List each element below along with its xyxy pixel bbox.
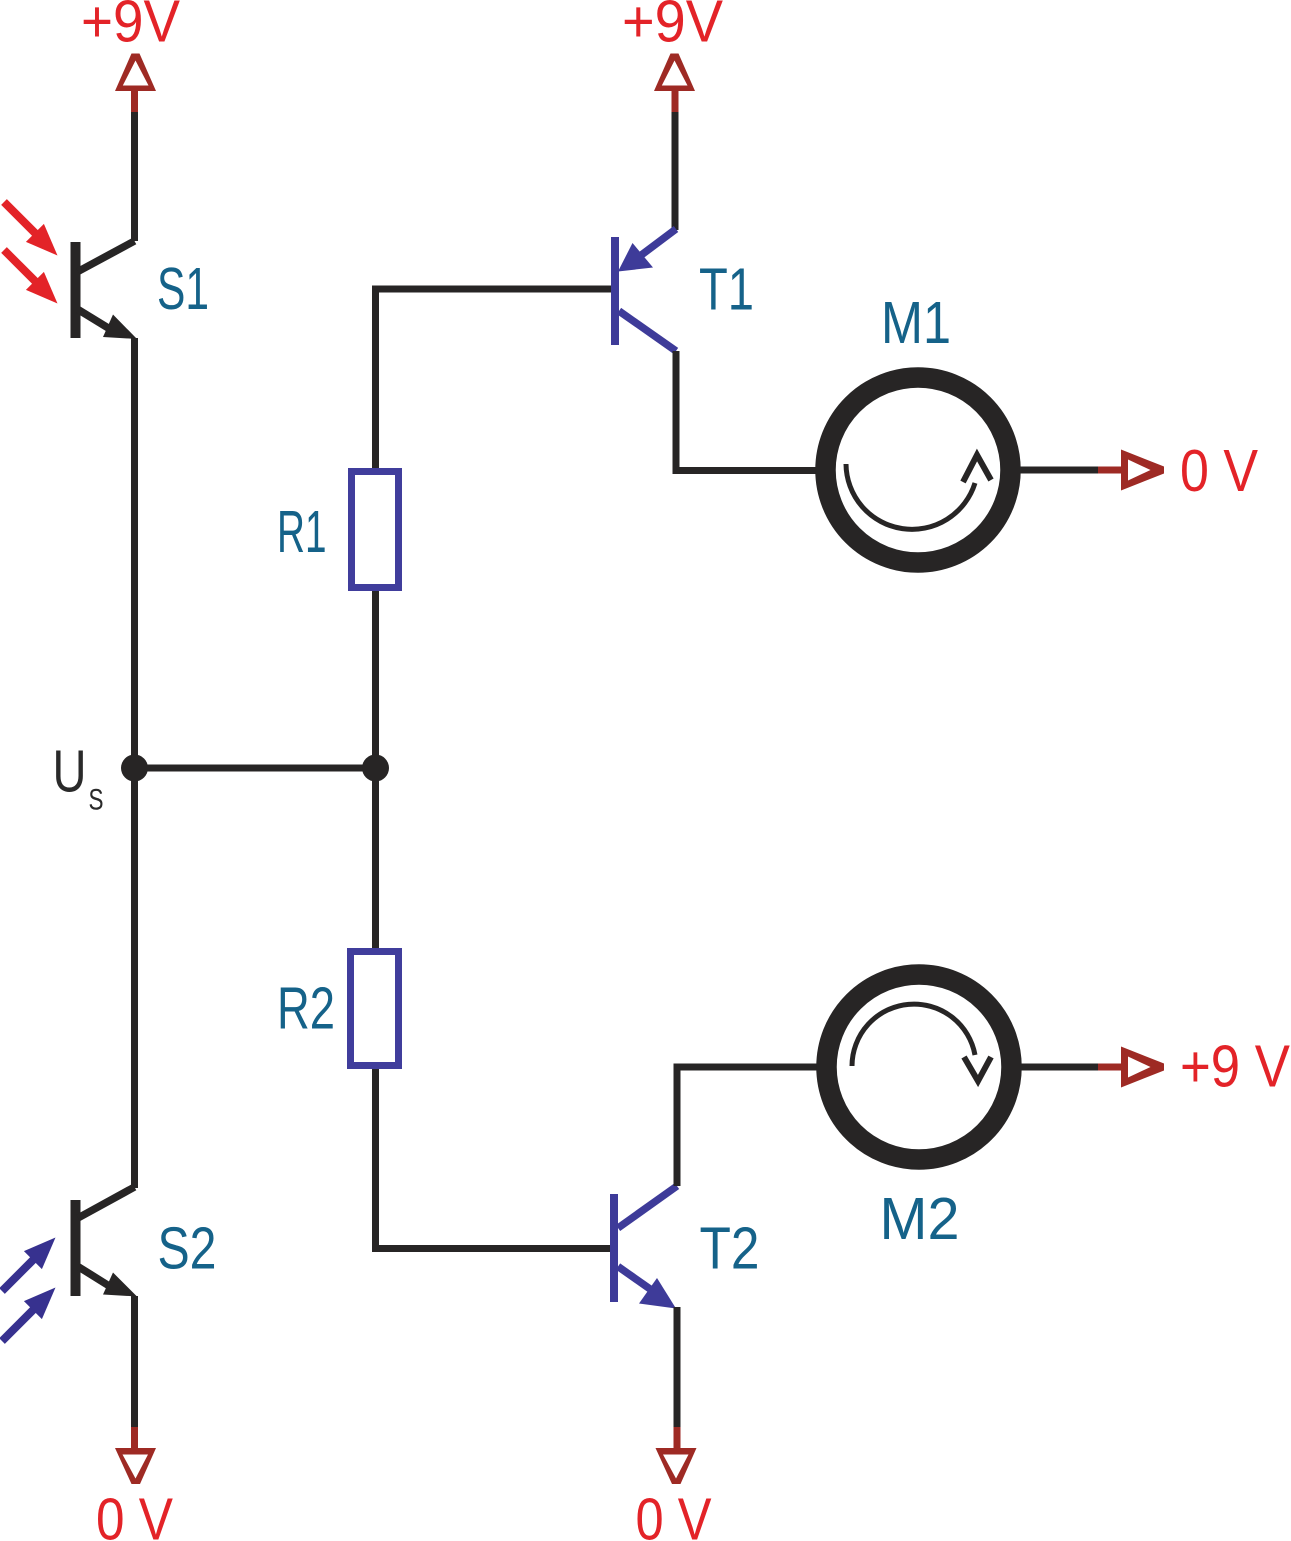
light arrows into S1: [4, 202, 58, 304]
resistor R2: [351, 952, 399, 1066]
svg-text:M2: M2: [880, 1186, 960, 1252]
supply stub (dark red) right M1: [1098, 467, 1122, 474]
wire: R1 top to T1 base: [376, 289, 612, 468]
svg-text:T1: T1: [699, 257, 754, 323]
wire: M1 to 0V: [1020, 467, 1100, 474]
supply stub (dark red) right M2: [1098, 1064, 1122, 1071]
svg-text:R2: R2: [277, 976, 335, 1042]
wire: S1 emitter down to node Us: [131, 338, 138, 768]
svg-text:S: S: [89, 784, 104, 817]
+9V arrow symbol (right M2): [1121, 1047, 1164, 1088]
wire: +9V to T1 emitter: [672, 112, 679, 230]
svg-text:S2: S2: [158, 1216, 217, 1282]
wire: M2 to +9V: [1021, 1064, 1100, 1071]
svg-text:0 V: 0 V: [636, 1487, 713, 1541]
transistor T2 (NPN): [614, 1186, 677, 1309]
supply stub (dark red) bottom left: [131, 1427, 138, 1449]
svg-text:R1: R1: [277, 499, 327, 565]
svg-text:T2: T2: [700, 1216, 760, 1282]
wire: S2 emitter down to 0V: [131, 1296, 138, 1428]
supply stub (dark red) top left: [131, 91, 138, 113]
wire: node link Us: [135, 765, 376, 772]
wire: R1 bottom to node: [372, 591, 379, 768]
wire: R2 bottom to T2 base: [376, 1069, 611, 1249]
svg-text:+9V: +9V: [81, 0, 181, 55]
svg-text:+9V: +9V: [622, 0, 724, 55]
0V ground arrow symbol (bottom T2): [656, 1448, 697, 1484]
motor M1: [826, 378, 1011, 563]
wire: +9V to S1 collector: [131, 112, 138, 241]
svg-text:M1: M1: [881, 290, 951, 356]
wire: node Us down to S2 collector: [131, 768, 138, 1188]
motor M2: [827, 975, 1012, 1160]
supply stub (dark red) T1: [672, 91, 679, 113]
wire: node to R2 top: [372, 768, 379, 948]
wire: T2 emitter to 0V: [674, 1307, 681, 1428]
wire: T2 collector to M2: [677, 1067, 817, 1186]
node junction dot (right): [362, 755, 389, 782]
0V arrow symbol (right M1): [1121, 450, 1164, 491]
svg-text:0 V: 0 V: [1180, 438, 1259, 504]
svg-text:0 V: 0 V: [96, 1487, 174, 1541]
transistor T1 (PNP): [615, 229, 676, 351]
M2 rotation arrow: [852, 1004, 975, 1066]
light arrows into S2: [2, 1238, 56, 1342]
resistor R1: [352, 472, 399, 588]
svg-text:S1: S1: [157, 256, 209, 322]
+9V supply arrow symbol (T1): [654, 54, 695, 92]
phototransistor S1: [76, 241, 138, 339]
M1 rotation arrow: [846, 464, 975, 529]
wire: T1 collector to M1: [676, 351, 816, 471]
svg-text:+9 V: +9 V: [1180, 1034, 1291, 1100]
supply stub (dark red) bottom T2: [674, 1427, 681, 1449]
+9V supply arrow symbol (top left): [115, 54, 156, 92]
svg-text:U: U: [53, 739, 87, 805]
phototransistor S2: [76, 1187, 138, 1297]
node Us junction dot (left): [121, 755, 148, 782]
0V ground arrow symbol (bottom left): [115, 1448, 156, 1484]
